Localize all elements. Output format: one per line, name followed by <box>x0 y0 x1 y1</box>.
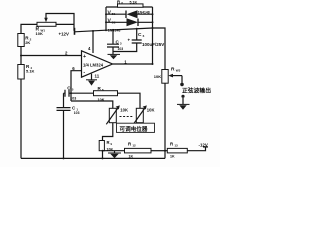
diode VD1 wires <box>106 13 153 15</box>
RW3 wiper arrow and wire <box>171 75 182 77</box>
svg-text:4: 4 <box>88 46 91 51</box>
svg-text:1N4148: 1N4148 <box>108 29 121 33</box>
wire R9 to bottom rail <box>102 151 104 159</box>
wire R8 to right pot <box>118 93 141 108</box>
node rail B dots <box>152 13 154 15</box>
node pin4 dot <box>92 30 94 32</box>
wire C1 to bottom rail <box>63 111 65 159</box>
potentiometer P2 arrow <box>133 108 145 124</box>
wire +12V rail <box>75 28 153 32</box>
svg-text:+12V: +12V <box>59 31 69 36</box>
wire bottom rail <box>21 157 165 159</box>
capacitor C6 plates <box>132 40 142 43</box>
wire wiper to output terminal <box>181 76 183 83</box>
wire ground terminal stem <box>182 98 184 104</box>
wire C1 rail <box>63 93 65 107</box>
svg-text:11: 11 <box>95 73 100 78</box>
ground below op-amp <box>86 79 97 81</box>
wire rail A (left feedback rail) <box>105 7 107 30</box>
svg-text:-: - <box>83 70 85 76</box>
svg-text:R: R <box>128 141 132 146</box>
svg-text:R: R <box>171 67 175 73</box>
svg-text:10K: 10K <box>154 74 161 79</box>
resistor R2 body <box>18 34 24 47</box>
svg-text:1/4 LM324: 1/4 LM324 <box>83 63 104 68</box>
svg-text:2K: 2K <box>25 40 30 45</box>
ground terminal ball <box>181 95 184 98</box>
svg-text:1K: 1K <box>170 154 175 158</box>
svg-text:3: 3 <box>120 41 122 45</box>
ground at R9/R12 row <box>114 151 116 153</box>
wire R4 down left rail <box>20 79 22 158</box>
output terminal ball <box>180 83 184 87</box>
wire pot left lead to R2 <box>21 24 37 33</box>
svg-text:2: 2 <box>65 51 68 56</box>
capacitor C5 plates <box>65 90 69 97</box>
svg-text:10K: 10K <box>120 108 128 113</box>
svg-text:R: R <box>170 141 174 146</box>
wire pot right lead <box>56 23 74 25</box>
resistor R12 body <box>125 148 152 153</box>
diode VD2 wires <box>106 21 153 23</box>
op-amp U1 triangle <box>82 51 113 77</box>
svg-text:R: R <box>107 140 110 145</box>
svg-text:5: 5 <box>72 87 74 91</box>
wire junction to R13 <box>165 150 167 152</box>
potentiometer P2 (right gang) body <box>136 108 143 122</box>
svg-text:103: 103 <box>118 47 124 51</box>
wire junction to bottom rail <box>164 151 166 159</box>
resistor R6 leads <box>106 6 153 8</box>
wire R12 to junction <box>151 150 165 152</box>
wire C6 bottom to shared ground <box>113 43 137 51</box>
svg-text:13: 13 <box>174 143 178 147</box>
potentiometer RW1 body <box>37 22 56 26</box>
diode VD1 (points left) <box>125 11 127 19</box>
svg-text:1K: 1K <box>129 154 134 158</box>
wire right pot stub <box>139 123 141 125</box>
svg-text:5.1K: 5.1K <box>26 69 35 74</box>
wire rail B (output feedback rail) <box>152 7 154 64</box>
wire R2 to node <box>20 47 22 56</box>
node output dot <box>152 63 154 65</box>
svg-text:12: 12 <box>132 143 136 147</box>
capacitor C3 plates <box>107 44 119 47</box>
resistor R8 body <box>94 91 118 96</box>
svg-text:可调电位器: 可调电位器 <box>120 125 148 133</box>
wire node to op-amp +input <box>21 55 82 57</box>
diode VD2 (points right) <box>137 19 139 27</box>
svg-text:D2: D2 <box>112 20 116 24</box>
potentiometer P1 arrow <box>106 108 118 124</box>
svg-text:W3: W3 <box>176 69 181 73</box>
wire rail to RW3 string <box>153 28 166 70</box>
svg-text:-12V: -12V <box>199 142 208 147</box>
potentiometer RW3 body <box>162 70 168 84</box>
wire op-amp pin11 <box>91 74 93 80</box>
node R12/R13 junction dot <box>164 150 166 152</box>
svg-text:C: C <box>72 106 76 111</box>
svg-text:9: 9 <box>111 142 113 146</box>
box adjustable potentiometer label <box>117 123 155 133</box>
svg-text:10K: 10K <box>107 147 114 151</box>
svg-text:D1: D1 <box>112 12 116 16</box>
svg-text:+: + <box>83 54 86 60</box>
svg-text:+: + <box>128 37 131 42</box>
ground symbol at output <box>177 103 190 105</box>
dashed gang link <box>120 116 134 118</box>
potentiometer RW1 wiper bracket wire <box>46 14 74 31</box>
svg-text:10K: 10K <box>147 108 155 113</box>
svg-text:103: 103 <box>70 97 76 101</box>
wire RW3 down to R12/R13 node <box>164 83 166 151</box>
svg-text:C: C <box>138 32 142 38</box>
wire R9 bottom row <box>103 150 125 152</box>
resistor R6 body <box>118 4 144 7</box>
wire C3 to ground <box>112 47 114 54</box>
wire C6 branch from +12V rail <box>136 29 138 40</box>
wire op-amp output <box>113 63 153 65</box>
wire op-amp pin 4 <box>92 31 94 53</box>
resistor R9 body <box>99 141 104 151</box>
wire op-amp -input <box>71 71 82 101</box>
svg-text:正弦波输出: 正弦波输出 <box>182 87 211 95</box>
wire C5 row <box>64 92 94 94</box>
potentiometer RW1 wiper arrow <box>44 18 48 23</box>
svg-text:1N4148: 1N4148 <box>138 10 150 14</box>
capacitor C1 plates <box>57 108 71 111</box>
svg-text:10K: 10K <box>36 31 43 36</box>
svg-text:103: 103 <box>74 111 80 115</box>
resistor R4 body <box>18 65 24 80</box>
+12V supply tick <box>74 28 76 35</box>
wire C3 branch from +12V rail <box>112 30 114 44</box>
ground below C3 <box>108 53 121 55</box>
wire -in row to left pot <box>71 101 113 108</box>
wire node to R4 <box>20 56 22 65</box>
wire R13 to -12V tick <box>187 147 205 151</box>
svg-text:6: 6 <box>143 34 145 38</box>
node -input/C5 row dot <box>70 92 72 94</box>
node A dot <box>20 55 22 57</box>
svg-text:5.1K: 5.1K <box>130 0 138 4</box>
wire left pot to R9 <box>103 123 113 141</box>
svg-text:10K: 10K <box>98 98 105 102</box>
svg-text:100uF/25V: 100uF/25V <box>142 42 164 47</box>
potentiometer P1 (left gang) body <box>109 108 116 122</box>
resistor R13 body <box>167 148 187 153</box>
node rail A dots <box>105 13 107 15</box>
